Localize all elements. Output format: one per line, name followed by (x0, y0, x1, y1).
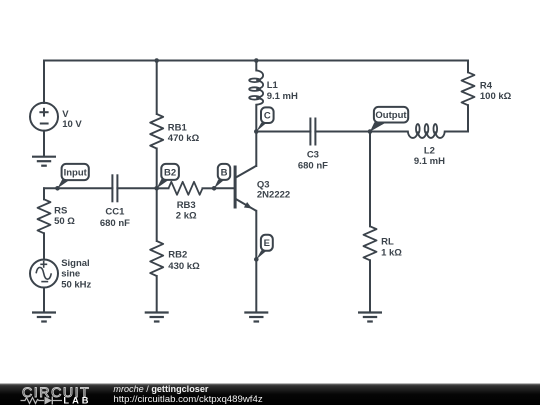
wire (370, 131, 408, 133)
capacitor C3 680 nF (298, 118, 328, 172)
node C flag (254, 107, 274, 133)
svg-text:680 nF: 680 nF (298, 161, 328, 172)
svg-text:Input: Input (64, 167, 88, 178)
svg-text:RB3: RB3 (177, 200, 196, 211)
wire (117, 187, 156, 189)
svg-text:R4: R4 (480, 81, 493, 92)
wire (43, 131, 45, 157)
svg-text:RB2: RB2 (168, 250, 187, 261)
svg-text:2 kΩ: 2 kΩ (176, 210, 197, 221)
svg-text:470 kΩ: 470 kΩ (168, 133, 200, 144)
resistor RB2 430 k (150, 188, 200, 312)
transistor Q3 2N2222 (234, 132, 291, 313)
wire base (214, 187, 234, 189)
svg-text:LAB: LAB (63, 396, 91, 405)
inductor L1 9.1 mH (249, 61, 298, 132)
ground (32, 313, 56, 322)
footer bar (0, 384, 540, 405)
svg-text:9.1 mH: 9.1 mH (414, 156, 445, 167)
ground (32, 157, 56, 166)
svg-text:RL: RL (381, 236, 394, 247)
wire (315, 131, 370, 133)
node Input flag (55, 164, 89, 191)
node B flag (212, 164, 230, 191)
resistor RL 1 k (364, 132, 403, 313)
node E flag (254, 235, 273, 262)
svg-text:Output: Output (375, 110, 407, 121)
svg-text:CC1: CC1 (105, 207, 125, 218)
node Output flag (368, 107, 408, 134)
ground (145, 313, 169, 322)
svg-text:sine: sine (61, 269, 80, 280)
input row wire (44, 187, 112, 189)
inductor L2 9.1 mH (408, 124, 468, 167)
svg-text:50 kHz: 50 kHz (61, 280, 91, 291)
CircuitLab logo (21, 385, 92, 405)
capacitor CC1 680 nF (100, 174, 130, 229)
node B2 flag (154, 164, 179, 191)
collector row wire (256, 131, 310, 133)
svg-text:10 V: 10 V (62, 119, 82, 130)
svg-text:Signal: Signal (61, 258, 90, 269)
node junction on top rail (RB1) (154, 58, 159, 63)
node junction on top rail (L1) (254, 58, 259, 63)
svg-text:B: B (221, 167, 228, 178)
resistor RS 50 ohm (38, 188, 76, 259)
svg-text:http://circuitlab.com/cktpxq48: http://circuitlab.com/cktpxq489wf4z (113, 394, 262, 405)
svg-text:680 nF: 680 nF (100, 218, 130, 229)
svg-text:L2: L2 (424, 145, 435, 156)
svg-text:L1: L1 (267, 80, 279, 91)
wire (44, 60, 468, 62)
svg-text:1 kΩ: 1 kΩ (381, 247, 402, 258)
svg-text:RB1: RB1 (168, 123, 188, 134)
svg-text:9.1 mH: 9.1 mH (267, 91, 298, 102)
svg-text:2N2222: 2N2222 (257, 190, 290, 201)
svg-text:100 kΩ: 100 kΩ (480, 91, 512, 102)
resistor R4 100 k (462, 61, 512, 132)
footer credit text (113, 384, 262, 405)
resistor RB3 2 k (157, 182, 214, 222)
svg-text:C3: C3 (307, 149, 319, 160)
wire (43, 288, 45, 313)
svg-text:E: E (264, 238, 270, 249)
ground (244, 313, 268, 322)
svg-text:C: C (264, 111, 271, 122)
signal source sine 50 kHz (30, 258, 92, 291)
ground (358, 313, 382, 322)
resistor RB1 470 k (150, 61, 199, 189)
svg-text:mroche / gettingcloser: mroche / gettingcloser (113, 384, 208, 394)
wire (43, 61, 45, 104)
svg-text:50 Ω: 50 Ω (54, 216, 75, 227)
svg-text:430 kΩ: 430 kΩ (168, 261, 200, 272)
voltage source V 10 V (30, 103, 82, 131)
svg-text:RS: RS (54, 206, 67, 217)
svg-text:B2: B2 (164, 167, 176, 178)
